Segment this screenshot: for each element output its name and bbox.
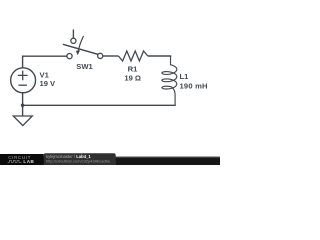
voltage source V1 (11, 68, 36, 93)
svg-text:LAB: LAB (23, 159, 34, 164)
svg-text:190 mH: 190 mH (180, 82, 208, 91)
watermark logo badge (0, 154, 44, 165)
wire resistor to top-right corner (148, 55, 171, 57)
svg-text:SW1: SW1 (76, 62, 93, 71)
switch SW1 arm (63, 44, 98, 54)
inductor L1 (162, 56, 177, 106)
watermark logo waveform (8, 160, 22, 162)
wire bottom rail (23, 104, 176, 106)
wire V1 top lead to switch left terminal (23, 56, 67, 68)
svg-text:http://circuitlab.com/c32p439b: http://circuitlab.com/c32p439bcadbe (46, 159, 111, 164)
wire V1 bottom lead (22, 93, 24, 105)
svg-text:R1: R1 (128, 65, 138, 74)
svg-text:19 Ω: 19 Ω (124, 73, 141, 82)
wire ground stub (22, 105, 24, 116)
watermark bottom bar (0, 158, 220, 165)
switch SW1 terminals (67, 54, 72, 59)
svg-text:19 V: 19 V (40, 79, 57, 88)
watermark text panel (44, 153, 116, 165)
svg-text:L1: L1 (180, 72, 190, 81)
switch SW1 actuator arrow (78, 36, 83, 51)
ground (13, 116, 32, 126)
resistor R1 (118, 51, 147, 61)
switch SW1 arrowhead (76, 50, 80, 55)
wire switch right terminal to resistor (103, 55, 119, 57)
junction node (21, 104, 25, 108)
switch SW1 stub (72, 30, 74, 39)
